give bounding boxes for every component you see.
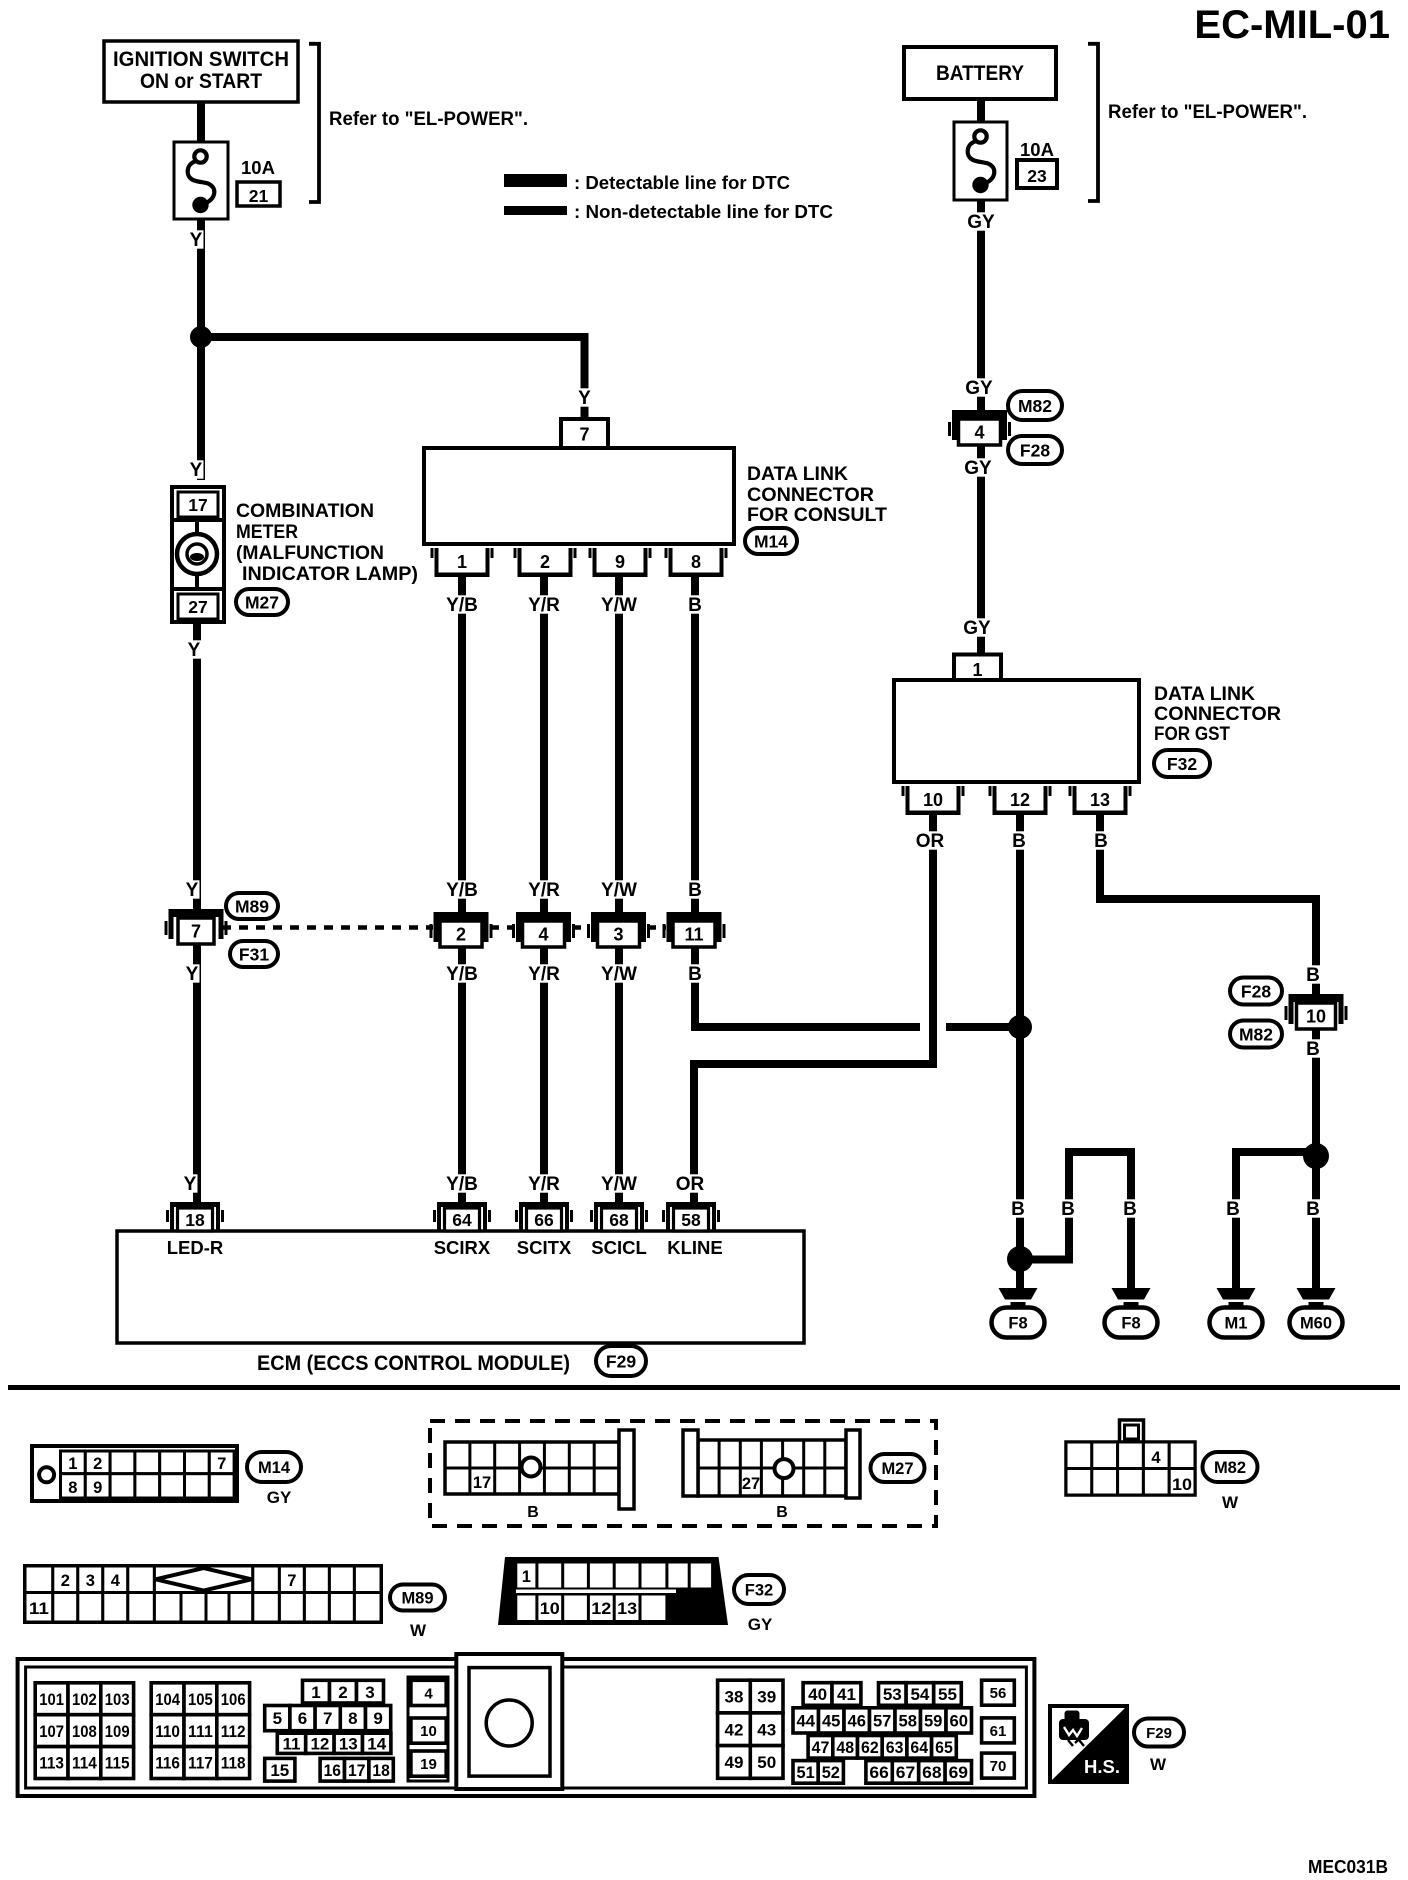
svg-text:F31: F31	[239, 944, 269, 964]
svg-text:18: 18	[372, 1761, 389, 1780]
svg-text:1: 1	[68, 1455, 77, 1473]
svg-text:63: 63	[886, 1738, 904, 1757]
svg-text:FOR GST: FOR GST	[1154, 724, 1230, 745]
svg-text:59: 59	[924, 1712, 943, 1731]
svg-text:FOR CONSULT: FOR CONSULT	[747, 505, 887, 526]
svg-text:12: 12	[310, 1734, 329, 1753]
svg-text:B: B	[1123, 1199, 1137, 1220]
svg-text:102: 102	[72, 1690, 97, 1709]
svg-text:53: 53	[883, 1685, 902, 1704]
svg-text:Y/W: Y/W	[601, 595, 637, 616]
svg-text:EC-MIL-01: EC-MIL-01	[1194, 3, 1390, 47]
svg-text:9: 9	[373, 1709, 382, 1728]
svg-text:INDICATOR LAMP): INDICATOR LAMP)	[242, 564, 418, 585]
svg-text:4: 4	[974, 423, 984, 443]
svg-text:3: 3	[365, 1683, 374, 1702]
svg-text:F28: F28	[1241, 981, 1271, 1001]
svg-text:METER: METER	[236, 522, 298, 543]
svg-text:M82: M82	[1214, 1459, 1246, 1477]
svg-text:16: 16	[324, 1761, 341, 1780]
svg-text:M14: M14	[258, 1459, 291, 1477]
svg-text:109: 109	[105, 1722, 130, 1741]
svg-text:Y: Y	[578, 388, 591, 409]
svg-text:GY: GY	[965, 378, 993, 399]
svg-text:41: 41	[837, 1685, 856, 1704]
svg-text:F32: F32	[745, 1581, 773, 1599]
svg-text:104: 104	[155, 1690, 180, 1709]
svg-text:64: 64	[910, 1738, 928, 1757]
svg-text:110: 110	[155, 1722, 180, 1741]
svg-text:40: 40	[808, 1685, 827, 1704]
svg-text:Y/B: Y/B	[446, 1174, 478, 1195]
svg-text:47: 47	[812, 1738, 830, 1757]
svg-text:10: 10	[540, 1600, 560, 1618]
svg-text:10: 10	[1306, 1007, 1326, 1027]
svg-text:OR: OR	[916, 831, 945, 852]
svg-text:F29: F29	[606, 1351, 636, 1371]
svg-text:ON or START: ON or START	[140, 70, 262, 93]
svg-text:67: 67	[896, 1763, 915, 1782]
svg-text:39: 39	[757, 1688, 776, 1707]
svg-text:W: W	[1150, 1755, 1167, 1774]
svg-text:4: 4	[538, 925, 548, 945]
svg-text:B: B	[1306, 965, 1320, 986]
svg-text:17: 17	[473, 1474, 491, 1492]
svg-text:4: 4	[1151, 1449, 1161, 1467]
svg-text:27: 27	[742, 1475, 760, 1493]
svg-text:7: 7	[191, 922, 201, 942]
svg-text:Refer to "EL-POWER".: Refer to "EL-POWER".	[1108, 102, 1307, 123]
svg-text:GY: GY	[964, 458, 992, 479]
svg-text:113: 113	[39, 1754, 64, 1773]
svg-text:CONNECTOR: CONNECTOR	[747, 485, 874, 506]
svg-text:F28: F28	[1020, 440, 1050, 460]
svg-text:10: 10	[1172, 1476, 1192, 1494]
svg-text:7: 7	[217, 1455, 226, 1473]
svg-text:56: 56	[990, 1685, 1007, 1702]
svg-text:10A: 10A	[241, 157, 275, 178]
svg-text:8: 8	[68, 1479, 77, 1497]
svg-text:7: 7	[287, 1572, 296, 1590]
svg-text:42: 42	[725, 1720, 744, 1739]
svg-text:10: 10	[420, 1723, 437, 1740]
svg-text:B: B	[527, 1504, 539, 1521]
svg-text:F29: F29	[1146, 1725, 1172, 1742]
svg-text:2: 2	[93, 1455, 102, 1473]
svg-text:B: B	[1226, 1199, 1240, 1220]
svg-text:M14: M14	[754, 531, 788, 551]
svg-text:61: 61	[990, 1723, 1007, 1740]
svg-text:66: 66	[534, 1210, 554, 1230]
svg-text:MEC031B: MEC031B	[1308, 1857, 1388, 1877]
svg-text:103: 103	[105, 1690, 130, 1709]
svg-text:55: 55	[938, 1685, 957, 1704]
svg-text:Y/W: Y/W	[601, 880, 637, 901]
svg-text:DATA LINK: DATA LINK	[747, 464, 848, 485]
svg-text:14: 14	[367, 1734, 386, 1753]
svg-text:BATTERY: BATTERY	[936, 62, 1024, 85]
svg-text:114: 114	[72, 1754, 97, 1773]
svg-text:46: 46	[848, 1712, 867, 1731]
svg-text:45: 45	[822, 1712, 841, 1731]
svg-text:1: 1	[311, 1683, 320, 1702]
svg-text:101: 101	[39, 1690, 64, 1709]
svg-text:2: 2	[540, 552, 550, 572]
svg-text:B: B	[1306, 1039, 1320, 1060]
svg-text:21: 21	[249, 186, 269, 206]
svg-text:38: 38	[725, 1688, 744, 1707]
svg-text:23: 23	[1027, 166, 1047, 186]
svg-text:Y: Y	[186, 880, 199, 901]
svg-text:64: 64	[452, 1210, 472, 1230]
svg-text:B: B	[1011, 1199, 1025, 1220]
svg-text:19: 19	[420, 1756, 437, 1773]
svg-text:2: 2	[456, 925, 466, 945]
svg-text:COMBINATION: COMBINATION	[236, 501, 374, 522]
svg-text:4: 4	[111, 1572, 121, 1590]
svg-text:B: B	[1306, 1199, 1320, 1220]
svg-text:68: 68	[922, 1763, 941, 1782]
svg-text:Y/R: Y/R	[528, 880, 560, 901]
svg-text:108: 108	[72, 1722, 97, 1741]
svg-text:11: 11	[29, 1600, 49, 1618]
svg-text:58: 58	[681, 1210, 701, 1230]
svg-text:106: 106	[221, 1690, 246, 1709]
svg-text:F8: F8	[1121, 1314, 1140, 1332]
svg-text:11: 11	[684, 925, 703, 945]
svg-text:13: 13	[617, 1600, 637, 1618]
svg-text:GY: GY	[748, 1615, 773, 1634]
svg-text:3: 3	[613, 925, 623, 945]
svg-text:12: 12	[591, 1600, 611, 1618]
svg-text:M1: M1	[1225, 1314, 1248, 1332]
svg-text:Y: Y	[190, 230, 203, 251]
svg-text:M82: M82	[1018, 396, 1052, 416]
svg-text:M27: M27	[881, 1460, 913, 1478]
svg-text:Y/W: Y/W	[601, 1174, 637, 1195]
svg-text:GY: GY	[967, 212, 995, 233]
svg-text:58: 58	[899, 1712, 918, 1731]
svg-text:Y: Y	[184, 1174, 197, 1195]
svg-text:15: 15	[270, 1761, 289, 1780]
svg-text:ECM (ECCS CONTROL MODULE): ECM (ECCS CONTROL MODULE)	[257, 1352, 570, 1375]
svg-text:52: 52	[822, 1763, 840, 1782]
svg-text:: Detectable line for DTC: : Detectable line for DTC	[574, 173, 790, 193]
svg-text:60: 60	[950, 1712, 969, 1731]
svg-text:Y/R: Y/R	[528, 595, 560, 616]
svg-text:B: B	[1061, 1199, 1075, 1220]
svg-text:3: 3	[86, 1572, 95, 1590]
svg-text:70: 70	[990, 1758, 1007, 1775]
svg-text:9: 9	[615, 552, 625, 572]
svg-text:OR: OR	[676, 1174, 705, 1195]
svg-text:Y/B: Y/B	[446, 964, 478, 985]
svg-text:17: 17	[188, 495, 207, 515]
svg-text:B: B	[776, 1504, 788, 1521]
svg-text:69: 69	[949, 1763, 968, 1782]
svg-text:54: 54	[910, 1685, 929, 1704]
svg-text:8: 8	[691, 552, 701, 572]
svg-text:112: 112	[221, 1722, 246, 1741]
svg-text:66: 66	[869, 1763, 888, 1782]
svg-text:7: 7	[323, 1709, 332, 1728]
svg-text:4: 4	[424, 1685, 433, 1702]
svg-text:13: 13	[339, 1734, 358, 1753]
svg-text:SCITX: SCITX	[517, 1237, 572, 1258]
svg-text:117: 117	[188, 1754, 213, 1773]
svg-text:Y/R: Y/R	[528, 964, 560, 985]
svg-text:Y: Y	[186, 964, 199, 985]
svg-text:27: 27	[188, 597, 207, 617]
svg-text:10A: 10A	[1020, 139, 1054, 160]
svg-text:M89: M89	[235, 896, 269, 916]
svg-text:68: 68	[609, 1210, 629, 1230]
svg-text:W: W	[410, 1621, 427, 1640]
svg-text:IGNITION SWITCH: IGNITION SWITCH	[113, 48, 289, 71]
svg-text:17: 17	[348, 1761, 365, 1780]
svg-text:M27: M27	[245, 592, 279, 612]
svg-text:Refer to "EL-POWER".: Refer to "EL-POWER".	[329, 109, 528, 130]
svg-text:6: 6	[298, 1709, 307, 1728]
svg-text:GY: GY	[267, 1488, 292, 1507]
svg-text:57: 57	[873, 1712, 892, 1731]
svg-text:62: 62	[861, 1738, 879, 1757]
svg-text:: Non-detectable line for DTC: : Non-detectable line for DTC	[574, 202, 833, 222]
svg-text:Y: Y	[188, 640, 201, 661]
svg-text:1: 1	[522, 1568, 531, 1586]
svg-text:SCIRX: SCIRX	[434, 1237, 491, 1258]
svg-text:107: 107	[39, 1722, 64, 1741]
svg-text:65: 65	[935, 1738, 953, 1757]
svg-text:SCICL: SCICL	[591, 1237, 647, 1258]
svg-text:9: 9	[93, 1479, 102, 1497]
svg-text:M60: M60	[1300, 1314, 1332, 1332]
svg-text:GY: GY	[963, 618, 991, 639]
svg-text:116: 116	[155, 1754, 180, 1773]
svg-text:W: W	[1222, 1493, 1239, 1512]
svg-text:43: 43	[757, 1720, 776, 1739]
svg-text:LED-R: LED-R	[167, 1237, 224, 1258]
svg-text:Y: Y	[190, 460, 203, 481]
svg-text:M89: M89	[401, 1589, 433, 1607]
svg-text:1: 1	[457, 552, 467, 572]
svg-text:10: 10	[923, 790, 943, 810]
svg-text:Y/B: Y/B	[446, 595, 478, 616]
svg-text:Y/R: Y/R	[528, 1174, 560, 1195]
svg-text:B: B	[1012, 831, 1026, 852]
svg-text:Y/W: Y/W	[601, 964, 637, 985]
svg-text:1: 1	[972, 660, 982, 680]
svg-text:F32: F32	[1167, 754, 1197, 774]
svg-text:111: 111	[188, 1722, 213, 1741]
svg-text:B: B	[688, 964, 702, 985]
svg-text:Y/B: Y/B	[446, 880, 478, 901]
svg-text:DATA LINK: DATA LINK	[1154, 684, 1255, 705]
svg-text:11: 11	[283, 1734, 301, 1753]
svg-text:(MALFUNCTION: (MALFUNCTION	[236, 543, 384, 564]
svg-text:115: 115	[105, 1754, 130, 1773]
svg-text:12: 12	[1010, 790, 1030, 810]
svg-text:M82: M82	[1239, 1024, 1273, 1044]
svg-text:7: 7	[579, 425, 589, 445]
svg-text:48: 48	[836, 1738, 854, 1757]
svg-text:49: 49	[725, 1753, 744, 1772]
svg-text:51: 51	[797, 1763, 815, 1782]
svg-text:H.S.: H.S.	[1084, 1756, 1120, 1777]
svg-text:2: 2	[338, 1683, 347, 1702]
svg-text:13: 13	[1090, 790, 1110, 810]
svg-text:118: 118	[221, 1754, 246, 1773]
svg-text:CONNECTOR: CONNECTOR	[1154, 704, 1281, 725]
svg-text:105: 105	[188, 1690, 213, 1709]
svg-text:B: B	[688, 880, 702, 901]
svg-text:KLINE: KLINE	[667, 1237, 723, 1258]
svg-text:2: 2	[61, 1572, 70, 1590]
svg-text:B: B	[688, 595, 702, 616]
svg-text:50: 50	[757, 1753, 776, 1772]
svg-text:44: 44	[797, 1712, 816, 1731]
svg-text:B: B	[1094, 831, 1108, 852]
svg-text:18: 18	[185, 1210, 205, 1230]
svg-text:5: 5	[273, 1709, 282, 1728]
svg-text:F8: F8	[1008, 1314, 1027, 1332]
svg-text:8: 8	[348, 1709, 357, 1728]
